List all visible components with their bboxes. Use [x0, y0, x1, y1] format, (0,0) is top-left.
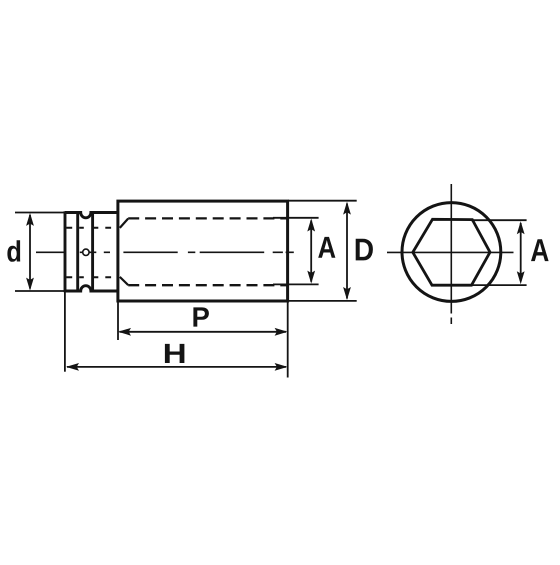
drive-end hidden square corner lines — [66, 228, 111, 278]
hidden hex bore bottom line — [128, 284, 287, 286]
dimension A (bore) line with arrows — [307, 219, 315, 284]
side-view axis centerline — [36, 251, 294, 253]
dimension P extension lines — [118, 303, 288, 378]
socket body outline — [118, 201, 288, 301]
front-view vertical centerline — [450, 184, 452, 324]
dimension d extension lines — [15, 213, 65, 292]
dimension d line with arrows — [26, 213, 34, 291]
drive-end square section outline — [65, 211, 118, 292]
socket outer circle — [402, 203, 501, 302]
front-view horizontal centerline — [387, 251, 514, 253]
label A (bore) — [318, 237, 335, 258]
label A (hex) — [531, 239, 549, 261]
dimension A (bore) extension lines — [273, 218, 319, 285]
hex opening — [413, 219, 490, 285]
label d — [7, 240, 20, 261]
label H — [165, 344, 185, 363]
bore chamfer diagonal top — [120, 219, 128, 228]
bore chamfer diagonal bottom — [120, 277, 128, 285]
dimension A (hex) extension lines — [471, 220, 527, 285]
dimension H extension line — [64, 292, 66, 372]
label P — [193, 307, 209, 326]
label D — [356, 239, 373, 261]
dimension D extension lines — [288, 201, 357, 301]
hidden hex bore top line — [128, 217, 287, 219]
dimension A (hex) line with arrows — [517, 221, 525, 284]
dimension P line with arrows — [118, 328, 288, 336]
retaining pin hole — [83, 249, 89, 255]
dimension H line with arrows — [66, 363, 288, 371]
dimension D line with arrows — [343, 202, 351, 300]
